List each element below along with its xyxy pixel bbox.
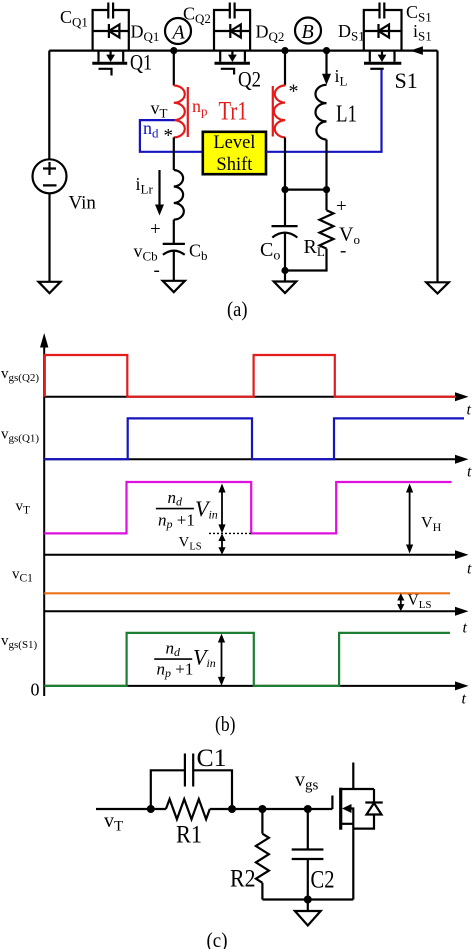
svg-text:VLS: VLS [179,535,202,553]
capacitor Co [272,226,298,237]
transistor M1 source and body [342,804,354,900]
axis time 5 [44,681,468,690]
transistor Q1 [92,51,127,76]
switch cell Q2 box [214,10,250,51]
node A [165,18,191,44]
svg-text:nd: nd [168,488,184,509]
wire Co branch [284,190,286,227]
svg-text:DQ1: DQ1 [131,22,160,45]
body diode M1 [353,789,382,829]
junction dot C1 right [228,805,236,813]
svg-text:*: * [164,126,174,147]
wire Vin to ground [48,193,50,281]
ground (right) [426,282,449,293]
svg-text:Vin: Vin [69,193,97,214]
svg-text:np: np [192,96,208,119]
svg-text:-: - [340,241,346,262]
arrow VLS (vT) [218,533,225,554]
svg-text:iLr: iLr [136,174,154,197]
winding secondary Tr1 [273,85,285,137]
wire RL branch [325,190,327,211]
svg-text:S1: S1 [395,68,418,93]
svg-text:B: B [302,21,314,43]
junction dot C1 left [147,805,155,813]
resistor R2 [256,834,269,883]
axis time 4 [44,607,468,616]
svg-text:C2: C2 [311,867,335,894]
svg-text:DS1: DS1 [338,21,365,44]
wire Lr to Cb [173,220,175,244]
svg-text:vgs(S1): vgs(S1) [1,633,38,651]
wire R2 top lead [261,809,263,834]
svg-text:nd: nd [143,118,159,141]
junction dot R2 top [258,805,266,813]
resistor RL [320,210,334,248]
wire output node link [285,189,327,191]
svg-text:CQ2: CQ2 [183,4,211,27]
current arrow iL [322,51,331,85]
transistor S1 [364,51,401,69]
transistor Q2 [215,51,250,75]
svg-text:CS1: CS1 [406,2,432,25]
svg-text:+: + [150,219,161,240]
source Vin [33,159,67,193]
junction dot L1 top [323,47,330,54]
svg-text:VLS: VLS [408,592,432,611]
junction dot node A [170,47,177,54]
waveform vgs(Q2) [45,355,456,397]
svg-text:DQ2: DQ2 [256,22,285,45]
wire R2 bottom lead [261,883,263,900]
capacitor C2 [292,850,324,860]
switch cell Q1 box [93,10,129,51]
switch cell S1 box [364,10,402,51]
wire RL to bottom [285,249,327,271]
transistor M1 channel bar [339,788,342,830]
axis time 3 [44,550,468,559]
svg-text:t: t [462,691,467,708]
node B [295,18,321,44]
wire input vT [96,808,166,810]
diode DS1 [364,24,402,38]
arrow amplitude (vT pulse) [218,484,225,534]
svg-text:Shift: Shift [216,155,253,175]
wire C2 top lead [307,809,309,850]
capacitor Cb [163,244,185,255]
wire main bus [49,49,437,51]
capacitor C1 [185,754,193,787]
capacitor CQ1 [108,3,113,19]
junction dot RL top [323,186,330,193]
wire node A to primary [173,51,175,86]
axis time 2 [44,455,468,464]
ground (c) [295,911,321,926]
inductor L1 [315,85,326,140]
wire bottom rail [262,898,353,900]
resistor R1 [166,799,210,819]
svg-text:(b): (b) [215,712,236,736]
svg-text:L1: L1 [336,102,357,128]
waveform vgs(S1) [44,633,450,686]
svg-text:vgs(Q1): vgs(Q1) [1,427,39,445]
wire C1 loop [151,770,232,809]
svg-text:CQ1: CQ1 [60,7,88,30]
svg-text:Q2: Q2 [238,67,261,92]
wire Cb to ground [173,251,175,281]
axis vertical (b) [40,333,48,696]
junction dot node B [281,47,288,54]
dotted level line (vT) [209,532,252,534]
svg-text:Co: Co [260,239,280,264]
svg-text:Vin: Vin [193,645,216,671]
svg-text:(c): (c) [207,928,228,949]
current arrow iS1 [410,46,423,55]
svg-text:t: t [467,561,472,578]
svg-text:(a): (a) [227,297,248,321]
svg-text:C1: C1 [197,745,227,772]
transistor M1 drain [342,763,375,790]
diode DQ2 [214,24,250,38]
svg-text:R1: R1 [176,822,202,849]
svg-text:vT: vT [104,810,123,835]
capacitor CS1 [380,3,385,19]
svg-text:np +1: np +1 [158,511,195,532]
svg-text:-: - [154,260,160,281]
block Level Shift [203,132,266,175]
wire ground stub [307,900,309,912]
waveform vT [44,482,451,533]
wire R1 to gate [210,808,333,810]
junction dot C2 top [304,805,312,813]
svg-text:np +1: np +1 [157,660,194,681]
axis time 1 [44,392,468,401]
svg-text:vT: vT [16,499,31,517]
svg-text:t: t [463,620,468,637]
wire Co to bottom [284,233,286,271]
svg-text:Vin: Vin [195,496,218,522]
svg-text:iL: iL [335,66,348,89]
fraction nd/(np+1)Vin (S1) [157,639,216,681]
svg-text:R2: R2 [230,866,256,893]
svg-text:RL: RL [304,236,325,259]
wire node B to secondary [284,51,286,86]
svg-text:+: + [336,196,347,217]
fraction nd/(np+1)Vin (vT) [158,488,218,531]
svg-text:Level: Level [213,133,255,153]
current arrow iLr [155,170,164,216]
svg-text:vT: vT [151,98,168,121]
arrow VH [406,484,413,554]
svg-text:*: * [289,81,299,103]
inductor Lr [174,170,184,220]
svg-text:nd: nd [166,639,182,660]
svg-text:A: A [171,22,186,44]
wire secondary down [284,137,286,189]
wire nd tap (blue) [140,120,203,152]
wire left input branch [48,51,50,160]
ground (Vin) [39,282,61,293]
wire right branch [436,51,438,283]
svg-text:vgs(Q2): vgs(Q2) [1,366,39,384]
svg-text:Q1: Q1 [130,50,152,75]
svg-text:t: t [467,464,472,481]
diode DQ1 [93,24,129,38]
ground (output) [274,282,297,294]
fraction bar (vT) [156,508,194,510]
svg-text:Cb: Cb [189,241,208,264]
svg-text:Tr1: Tr1 [219,97,248,126]
transistor M1 gate bar [331,796,333,810]
svg-text:VH: VH [421,515,442,535]
wire level shift to S1 gate (blue) [266,70,382,152]
wire L1 down [325,140,327,190]
wire to output ground [284,271,286,282]
waveform vgs(Q1) [44,418,464,459]
winding np primary Tr1 [174,86,188,138]
wire primary to Lr [173,137,175,170]
arrow amplitude (S1 pulse) [218,634,225,686]
arrow VLS (vC1) [397,593,404,611]
svg-text:t: t [467,402,472,419]
svg-text:0: 0 [31,680,40,700]
junction dot ground [304,896,312,904]
junction dot output bottom [281,267,288,274]
fraction bar (S1) [154,658,192,660]
capacitor CQ2 [230,3,235,19]
waveform vC1 [44,592,450,594]
ground (Cb) [163,281,185,292]
wire C2 bottom lead [307,859,309,900]
junction dot Co top [281,186,288,193]
svg-text:vC1: vC1 [12,567,33,585]
svg-text:vgs: vgs [295,769,319,794]
